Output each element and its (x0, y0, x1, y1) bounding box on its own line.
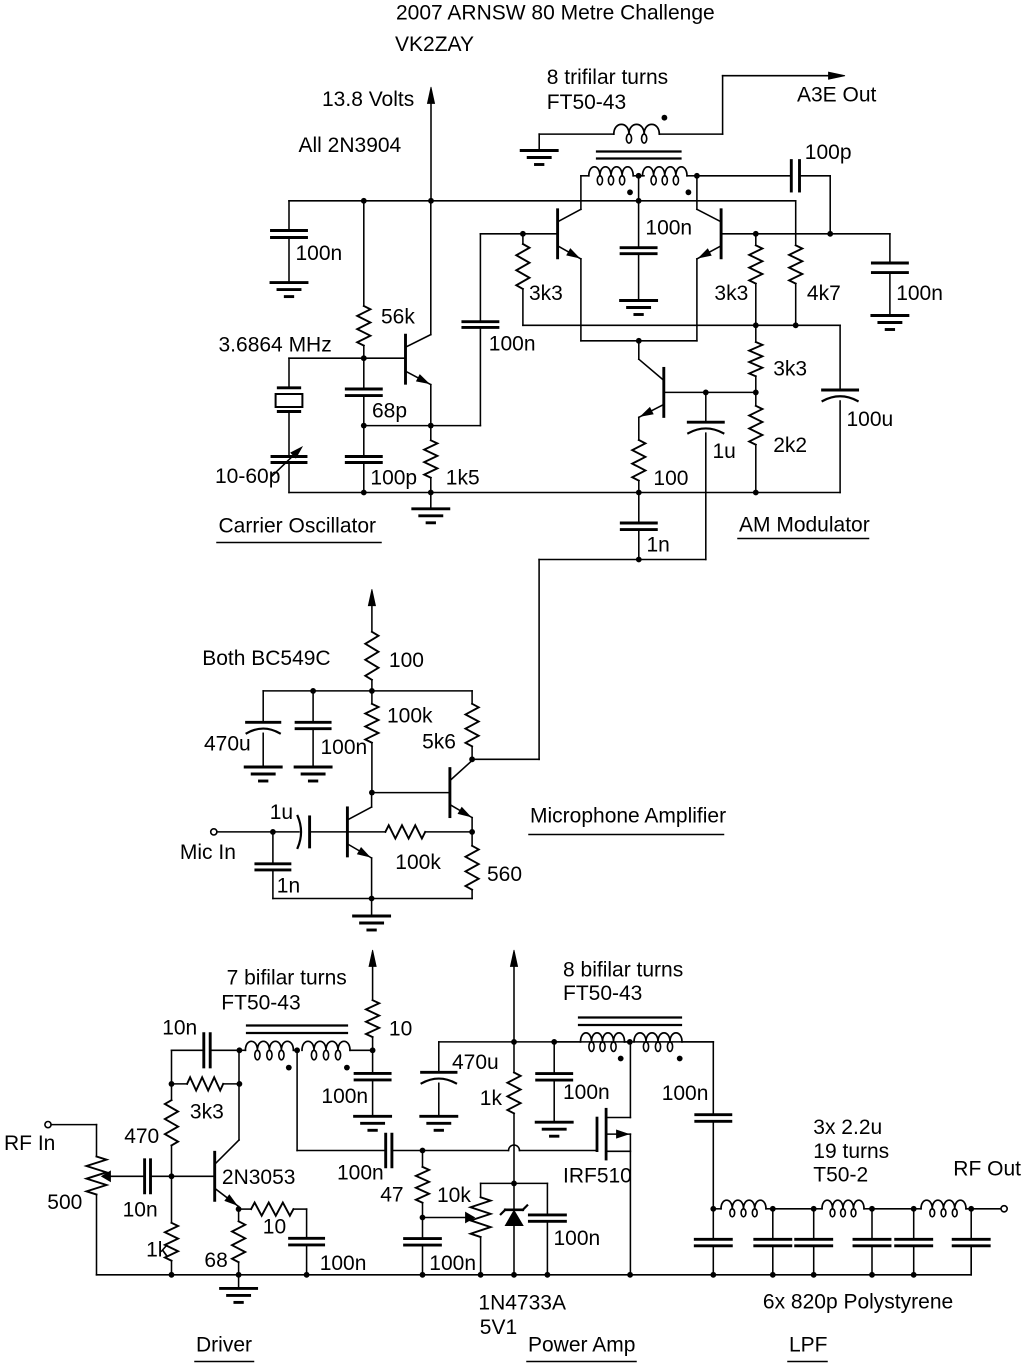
svg-text:1N4733A: 1N4733A (478, 1291, 566, 1314)
svg-text:100n: 100n (489, 333, 536, 356)
svg-text:Driver: Driver (196, 1333, 252, 1356)
svg-text:8 trifilar turns: 8 trifilar turns (547, 66, 668, 89)
svg-text:2N3053: 2N3053 (222, 1166, 296, 1189)
svg-text:RF Out: RF Out (953, 1158, 1021, 1181)
svg-text:1k: 1k (480, 1087, 503, 1110)
svg-text:68: 68 (204, 1249, 227, 1272)
svg-text:3.6864 MHz: 3.6864 MHz (219, 334, 332, 357)
svg-text:100k: 100k (387, 705, 433, 728)
svg-text:100p: 100p (805, 141, 852, 164)
svg-text:A3E Out: A3E Out (797, 83, 877, 106)
svg-text:3k3: 3k3 (529, 282, 563, 305)
svg-text:4k7: 4k7 (807, 282, 841, 305)
svg-text:3k3: 3k3 (714, 282, 748, 305)
svg-text:T50-2: T50-2 (813, 1164, 868, 1187)
svg-text:2007 ARNSW 80 Metre Challenge: 2007 ARNSW 80 Metre Challenge (396, 2, 715, 25)
svg-text:100p: 100p (370, 467, 417, 490)
svg-text:Carrier Oscillator: Carrier Oscillator (219, 515, 377, 538)
svg-text:AM Modulator: AM Modulator (739, 513, 870, 536)
svg-text:68p: 68p (372, 400, 407, 423)
svg-text:Microphone Amplifier: Microphone Amplifier (530, 804, 726, 827)
svg-text:3k3: 3k3 (773, 358, 807, 381)
svg-text:100n: 100n (321, 1085, 368, 1108)
svg-text:FT50-43: FT50-43 (221, 992, 300, 1015)
svg-text:10k: 10k (437, 1184, 471, 1207)
svg-text:13.8 Volts: 13.8 Volts (322, 88, 414, 111)
svg-text:All 2N3904: All 2N3904 (299, 134, 402, 157)
svg-text:100n: 100n (296, 242, 343, 265)
svg-text:100n: 100n (662, 1082, 709, 1105)
svg-text:RF In: RF In (4, 1132, 55, 1155)
svg-text:2k2: 2k2 (773, 434, 807, 457)
svg-text:10n: 10n (162, 1017, 197, 1040)
svg-text:100n: 100n (429, 1252, 476, 1275)
svg-text:100k: 100k (395, 851, 441, 874)
svg-text:56k: 56k (381, 305, 415, 328)
svg-text:100n: 100n (563, 1081, 610, 1104)
svg-text:470u: 470u (204, 732, 251, 755)
svg-text:10: 10 (389, 1018, 412, 1041)
svg-text:47: 47 (380, 1183, 403, 1206)
svg-text:Both BC549C: Both BC549C (202, 647, 330, 670)
svg-text:1k5: 1k5 (446, 467, 480, 490)
svg-text:100: 100 (653, 467, 688, 490)
svg-text:LPF: LPF (789, 1333, 828, 1356)
svg-text:100n: 100n (321, 736, 368, 759)
svg-text:Power Amp: Power Amp (528, 1333, 635, 1356)
svg-text:3k3: 3k3 (190, 1101, 224, 1124)
svg-text:560: 560 (487, 863, 522, 886)
svg-text:100n: 100n (896, 282, 943, 305)
svg-text:1u: 1u (270, 801, 293, 824)
svg-text:100n: 100n (645, 217, 692, 240)
svg-text:1u: 1u (713, 440, 736, 463)
svg-text:VK2ZAY: VK2ZAY (395, 33, 474, 56)
svg-text:3x 2.2u: 3x 2.2u (813, 1116, 882, 1139)
svg-text:FT50-43: FT50-43 (563, 982, 642, 1005)
svg-text:5V1: 5V1 (480, 1316, 517, 1339)
svg-text:6x 820p Polystyrene: 6x 820p Polystyrene (763, 1291, 953, 1314)
svg-text:470: 470 (124, 1125, 159, 1148)
svg-text:19 turns: 19 turns (813, 1140, 889, 1163)
svg-text:10: 10 (263, 1215, 286, 1238)
svg-text:5k6: 5k6 (422, 730, 456, 753)
svg-text:FT50-43: FT50-43 (547, 91, 626, 114)
svg-text:IRF510: IRF510 (563, 1164, 632, 1187)
svg-text:1k: 1k (146, 1239, 169, 1262)
svg-text:100: 100 (389, 649, 424, 672)
svg-text:8 bifilar turns: 8 bifilar turns (563, 959, 683, 982)
svg-text:10n: 10n (123, 1199, 158, 1222)
svg-text:7 bifilar turns: 7 bifilar turns (227, 966, 347, 989)
svg-text:1n: 1n (647, 534, 670, 557)
svg-text:Mic In: Mic In (180, 841, 236, 864)
svg-text:100n: 100n (554, 1227, 601, 1250)
svg-text:100n: 100n (320, 1252, 367, 1275)
svg-text:100u: 100u (847, 408, 894, 431)
svg-text:10-60p: 10-60p (215, 465, 280, 488)
svg-text:100n: 100n (337, 1161, 384, 1184)
svg-text:1n: 1n (277, 875, 300, 898)
svg-text:470u: 470u (452, 1051, 499, 1074)
svg-text:500: 500 (47, 1191, 82, 1214)
